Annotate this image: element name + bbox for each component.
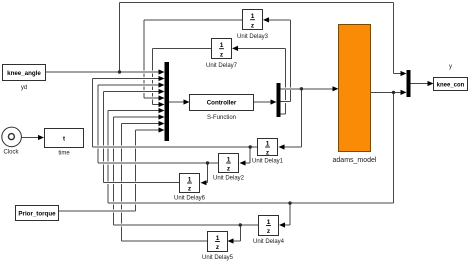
svg-text:1: 1 — [188, 177, 192, 184]
svg-text:Unit Delay3: Unit Delay3 — [237, 34, 269, 40]
svg-text:1: 1 — [267, 219, 271, 226]
svg-text:Prior_torque: Prior_torque — [18, 211, 56, 218]
svg-text:Unit Delay1: Unit Delay1 — [252, 159, 284, 165]
svg-text:adams_model: adams_model — [333, 157, 377, 164]
svg-text:S-Function: S-Function — [207, 115, 236, 121]
svg-text:Unit Delay4: Unit Delay4 — [253, 239, 285, 245]
svg-text:Unit Delay2: Unit Delay2 — [213, 176, 245, 182]
svg-text:knee_angle: knee_angle — [7, 70, 41, 77]
svg-text:1: 1 — [266, 141, 270, 148]
svg-text:y: y — [449, 64, 452, 70]
svg-text:1: 1 — [216, 235, 220, 242]
svg-text:time: time — [58, 151, 70, 157]
svg-text:Unit Delay7: Unit Delay7 — [206, 63, 238, 69]
svg-text:Controller: Controller — [207, 100, 237, 107]
svg-text:t: t — [63, 136, 65, 143]
svg-text:Unit Delay5: Unit Delay5 — [202, 255, 234, 261]
svg-text:1: 1 — [220, 42, 224, 49]
svg-text:knee_con: knee_con — [437, 83, 465, 89]
svg-text:Unit Delay6: Unit Delay6 — [174, 196, 206, 202]
svg-text:1: 1 — [227, 157, 231, 164]
svg-text:yd: yd — [21, 85, 27, 91]
svg-text:1: 1 — [251, 13, 255, 20]
svg-text:Clock: Clock — [3, 150, 19, 156]
